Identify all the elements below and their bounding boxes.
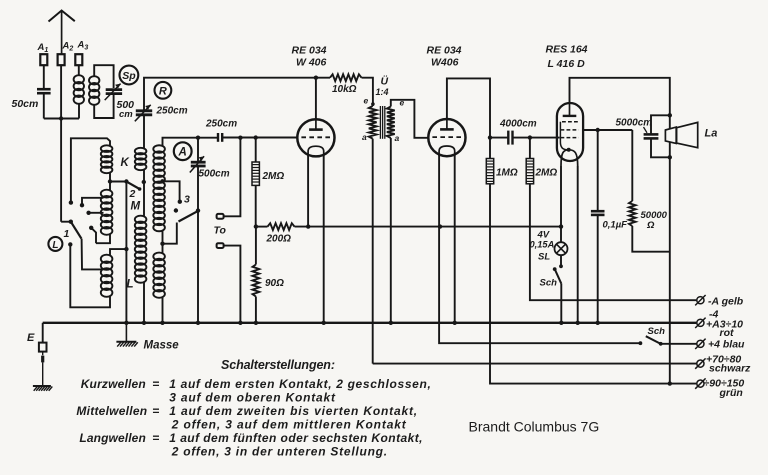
- wire 2Mohm to gelb line: [530, 184, 697, 300]
- wire A cap top: [197, 138, 199, 161]
- wire coil3 top: [163, 138, 199, 146]
- wire V3 filament right to bus: [577, 166, 579, 323]
- svg-text:=: =: [152, 377, 159, 391]
- variable capacitor Sp 500cm: [106, 88, 122, 91]
- wire coil2 bottom: [143, 282, 145, 323]
- svg-text:2MΩ: 2MΩ: [262, 171, 285, 182]
- svg-text:4000cm: 4000cm: [499, 119, 537, 130]
- junction gruen: [668, 381, 672, 385]
- wire secondary bottom to bus: [390, 138, 392, 323]
- svg-text:RE 034: RE 034: [292, 45, 327, 57]
- svg-text:E: E: [27, 332, 35, 344]
- V3 grid rail: [560, 122, 567, 150]
- terminal A2: [58, 54, 65, 65]
- junction bus x198: [196, 321, 200, 325]
- svg-text:rot: rot: [720, 327, 735, 339]
- wire filament line left: [256, 226, 268, 228]
- wire to 4000cm: [490, 137, 507, 139]
- wire 0.1uF to bus: [597, 215, 599, 322]
- junction coil3 tap upper: [160, 179, 164, 183]
- junction To grid line: [238, 136, 242, 140]
- svg-text:2: 2: [129, 188, 136, 200]
- wire R to coil K2: [143, 115, 145, 148]
- wire V2 filament right: [454, 155, 456, 322]
- junction bus x391: [389, 321, 393, 325]
- coil lower grid section: [153, 253, 165, 261]
- wire coil1 top: [71, 138, 110, 201]
- wire 90ohm to bus: [255, 297, 257, 323]
- switch 1 pivot: [69, 220, 73, 224]
- svg-text:250cm: 250cm: [205, 119, 237, 130]
- svg-text:A1: A1: [37, 42, 49, 54]
- resistor 2Mohm grid: [526, 159, 533, 184]
- wire coil L bottom lead: [70, 246, 110, 307]
- switch 2 blade: [126, 182, 139, 190]
- resistor 90ohm: [253, 265, 260, 297]
- junction coil1 tap: [108, 179, 112, 183]
- junction grid node: [196, 136, 200, 140]
- svg-text:2 offen, 3 in der unteren: 2 offen, 3 in der unteren Stellung.: [171, 445, 387, 459]
- wire 250cm to tube1 grid: [223, 137, 298, 139]
- svg-text:2MΩ: 2MΩ: [535, 168, 558, 179]
- wire blau to terminal: [661, 343, 697, 345]
- resistor 200ohm: [268, 223, 295, 230]
- wire tank bottom: [94, 95, 113, 118]
- coil K left section: [101, 145, 113, 152]
- wire blade tip to L tap: [82, 239, 104, 270]
- svg-text:La: La: [705, 128, 718, 140]
- wire V3 screen out: [583, 129, 632, 131]
- wire coil1 M bottom: [96, 234, 110, 243]
- wire coil3 mid: [162, 231, 164, 254]
- wire V2 plate to 4000cm: [447, 78, 490, 137]
- tube V3 RES164 envelope: [557, 103, 583, 161]
- contact dot switch1 c5: [68, 242, 72, 246]
- resistor 1Mohm lead: [489, 138, 491, 159]
- terminal -A gelb: [697, 297, 704, 304]
- terminal To upper: [217, 214, 224, 219]
- junction lamp switch: [559, 264, 563, 268]
- resistor 2Mohm input: [252, 162, 259, 185]
- svg-text:3 auf dem oberen Kontakt: 3 auf dem oberen Kontakt: [169, 391, 336, 405]
- wire screen to 50000: [631, 130, 633, 201]
- wire coil3 to switch3 blade: [163, 223, 177, 244]
- wire schwarz line: [373, 363, 697, 365]
- wire To upper: [224, 138, 241, 217]
- capacitor 4000cm: [507, 131, 509, 145]
- svg-text:=: =: [152, 404, 159, 418]
- terminal 90-150 gruen: [697, 380, 704, 387]
- wire V1 filament right: [323, 156, 325, 323]
- junction bus x455: [453, 321, 457, 325]
- circled label R: [155, 82, 172, 99]
- wire A column to bus: [197, 167, 199, 323]
- antenna coupling coil secondary: [89, 76, 99, 84]
- resistor 1Mohm: [486, 159, 493, 184]
- switch 2 pivot: [124, 179, 128, 183]
- svg-text:0,15A: 0,15A: [530, 240, 555, 250]
- wire V2 filament left: [439, 155, 640, 343]
- svg-text:1MΩ: 1MΩ: [496, 168, 518, 179]
- resistor 90ohm lead: [255, 227, 257, 265]
- V3 plate bar: [563, 115, 577, 117]
- junction bus x598: [596, 321, 600, 325]
- svg-text:e: e: [364, 96, 369, 106]
- svg-text:2 offen, 3 auf dem mittle: 2 offen, 3 auf dem mittleren Kontakt: [171, 418, 407, 432]
- svg-text:M: M: [131, 201, 141, 213]
- lamp SL 4V 0.15A: [555, 242, 568, 255]
- wire 1Mohm to gruen line: [490, 184, 696, 384]
- wire secondary top to V2 grid: [391, 100, 429, 138]
- svg-text:Sp: Sp: [122, 70, 136, 82]
- wire A2 down: [60, 65, 62, 222]
- V3 filament: [561, 150, 578, 166]
- wire switch2 to Masse bus: [125, 182, 127, 323]
- svg-text:RE 034: RE 034: [427, 45, 462, 57]
- switch 2 tip: [138, 187, 142, 191]
- junction 90ohm top: [254, 224, 258, 228]
- speaker bus: [669, 115, 671, 383]
- svg-text:250cm: 250cm: [156, 106, 188, 117]
- wire primary bottom down: [372, 139, 374, 364]
- junction bus x126: [124, 321, 128, 325]
- switch 1 blade: [71, 222, 82, 239]
- junction 4000cm left: [488, 135, 492, 139]
- svg-text:Sch: Sch: [540, 278, 558, 289]
- wire 2M to junction: [255, 185, 257, 226]
- svg-text:RES 164: RES 164: [546, 44, 588, 56]
- svg-text:500cm: 500cm: [199, 169, 230, 180]
- capacitor 0.1uF lead: [597, 130, 599, 211]
- svg-text:Ü: Ü: [381, 75, 389, 88]
- svg-text:R: R: [159, 86, 167, 98]
- contact c4 with wire: [89, 226, 93, 230]
- svg-text:3: 3: [184, 194, 190, 206]
- switch 3 pivot: [196, 208, 200, 212]
- junction transformer e: [371, 102, 375, 106]
- junction bus x240: [238, 321, 242, 325]
- junction lamp top: [559, 224, 563, 228]
- svg-text:L 416 D: L 416 D: [548, 58, 586, 70]
- contact switch3 b: [174, 208, 178, 212]
- junction speaker bottom: [668, 155, 672, 159]
- svg-text:Kurzwellen: Kurzwellen: [81, 377, 146, 391]
- svg-text:90Ω: 90Ω: [265, 278, 284, 289]
- junction tube1 filament: [306, 224, 310, 228]
- terminal -4 +A3 rot: [697, 319, 704, 326]
- circled label L: [48, 237, 62, 251]
- wire V1 filament left: [307, 156, 309, 227]
- junction coil2: [142, 180, 146, 184]
- wire coil2 mid: [143, 170, 145, 217]
- variable capacitor R 250cm: [136, 109, 152, 112]
- wire To lower: [224, 246, 241, 323]
- svg-text:1 auf dem zweiten bis vie: 1 auf dem zweiten bis vierten Kontakt,: [169, 404, 417, 418]
- wire antenna coil bottom: [78, 103, 80, 119]
- svg-text:schwarz: schwarz: [709, 363, 751, 375]
- svg-text:1: 1: [64, 228, 70, 240]
- svg-text:W 406: W 406: [296, 56, 327, 68]
- svg-text:To: To: [214, 225, 227, 237]
- wire coil3 bottom: [162, 297, 164, 323]
- svg-text:=: =: [152, 431, 159, 445]
- wire A1-row to coil: [44, 118, 79, 120]
- svg-text:+4 blau: +4 blau: [708, 339, 745, 351]
- wire V1 plate: [315, 78, 317, 120]
- junction bus x324: [322, 321, 326, 325]
- svg-text:Sch: Sch: [648, 326, 666, 337]
- wire A3 to coil: [78, 65, 80, 76]
- coil grid section: [153, 145, 165, 153]
- resistor 50000ohm: [629, 201, 636, 226]
- terminal E: [39, 343, 47, 352]
- junction speaker top: [668, 113, 672, 117]
- junction bus x162: [160, 321, 164, 325]
- junction L-coil top: [124, 247, 128, 251]
- capacitor 5000cm branch: [651, 115, 670, 134]
- wire 4000cm to V3: [513, 137, 559, 139]
- terminal To lower: [217, 243, 224, 248]
- transformer secondary winding: [387, 107, 395, 139]
- svg-text:0,1µF: 0,1µF: [603, 220, 628, 231]
- wire coil1 to switch2: [110, 181, 126, 183]
- contact c3 with wire: [86, 211, 90, 215]
- junction V1 plate: [314, 76, 318, 80]
- svg-text:a: a: [395, 133, 400, 143]
- junction bus x561: [559, 321, 563, 325]
- V3 grid dashes: [562, 121, 579, 123]
- svg-text:grün: grün: [719, 387, 743, 399]
- circled label A: [174, 142, 192, 160]
- svg-text:Schalterstellungen:: Schalterstellungen:: [221, 358, 335, 372]
- wire grid node to 250cm: [198, 137, 217, 139]
- svg-text:Masse: Masse: [144, 340, 180, 352]
- earth ground: [33, 385, 51, 387]
- resistor 10kohm: [330, 74, 362, 81]
- svg-text:cm: cm: [119, 109, 133, 120]
- coil M left section: [101, 190, 113, 198]
- switch Sch lamp blade: [555, 269, 562, 284]
- svg-text:A2: A2: [62, 41, 74, 53]
- coil M-L mid section: [135, 216, 147, 223]
- wire A1 to capacitor: [43, 65, 45, 88]
- circled label Sp: [119, 66, 138, 85]
- svg-text:Mittelwellen: Mittelwellen: [76, 404, 147, 418]
- svg-text:L: L: [127, 279, 134, 291]
- transformer primary winding: [369, 106, 377, 139]
- contact switch3 a: [178, 200, 182, 204]
- wire Sch to bus: [560, 284, 562, 323]
- variable capacitor A 500cm: [191, 161, 206, 164]
- wire E lead: [42, 352, 44, 356]
- junction A2-A1 row: [59, 116, 63, 120]
- svg-text:1:4: 1:4: [376, 87, 389, 97]
- speaker La: [665, 127, 676, 143]
- svg-text:K: K: [121, 157, 130, 169]
- wire A2 to pivot: [61, 221, 71, 223]
- Masse bus: [43, 322, 697, 324]
- junction 2Mohm grid top: [528, 135, 532, 139]
- svg-text:L: L: [52, 240, 58, 251]
- coil L left section: [101, 255, 113, 263]
- wire tank loop: [94, 65, 113, 88]
- switch 3 blade: [179, 211, 199, 222]
- junction 2M resistor top: [254, 135, 258, 139]
- junction 0.1uF top: [596, 128, 600, 132]
- antenna coupling coil primary: [74, 75, 84, 83]
- junction bus x144: [142, 321, 146, 325]
- svg-text:Brandt Columbus 7G: Brandt Columbus 7G: [469, 419, 600, 435]
- capacitor 50cm: [37, 88, 51, 91]
- svg-text:A: A: [178, 147, 187, 159]
- wire coil1 K-M: [109, 173, 111, 191]
- svg-text:a: a: [362, 132, 367, 142]
- svg-text:1 auf dem fünften oder se: 1 auf dem fünften oder sechsten Kontakt,: [169, 431, 422, 445]
- terminal +70-80 schwarz: [697, 360, 704, 367]
- switch Sch output blade: [646, 336, 661, 344]
- svg-text:Langwellen: Langwellen: [79, 431, 145, 445]
- svg-text:W406: W406: [431, 56, 459, 68]
- svg-text:5000cm: 5000cm: [616, 118, 653, 129]
- junction tube2 filament: [438, 224, 442, 228]
- svg-text:A3: A3: [77, 40, 89, 52]
- wire coil L top lead: [110, 249, 126, 255]
- junction bus x256: [254, 321, 258, 325]
- tube V1 RE034: [297, 119, 334, 156]
- transformer core: [379, 106, 381, 139]
- switch Sch lamp contact: [553, 267, 557, 271]
- terminal A1: [40, 54, 47, 65]
- terminal +4 blau: [697, 340, 704, 347]
- junction bus x578: [576, 321, 580, 325]
- wire lamp bottom: [560, 255, 562, 266]
- svg-text:-A gelb: -A gelb: [708, 296, 744, 308]
- svg-text:SL: SL: [538, 252, 550, 263]
- svg-text:1 auf dem ersten Kontakt,: 1 auf dem ersten Kontakt, 2 geschlossen,: [169, 377, 431, 391]
- junction coil3 lower: [160, 242, 164, 246]
- Masse ground: [125, 323, 127, 342]
- svg-text:Ω: Ω: [646, 220, 655, 231]
- wire 50000 to speaker bus: [632, 226, 670, 252]
- wire coil3 tap to contact: [163, 181, 180, 200]
- resistor 2Mohm grid lead: [529, 138, 531, 159]
- tube V2 RE034: [428, 119, 465, 156]
- wire V3 plate top: [570, 78, 670, 116]
- capacitor 250cm: [217, 133, 219, 142]
- svg-text:200Ω: 200Ω: [266, 234, 292, 245]
- antenna symbol: [49, 11, 75, 22]
- coil K mid section: [135, 148, 147, 155]
- terminal A3: [75, 54, 82, 65]
- resistor 2Mohm input lead: [255, 138, 257, 162]
- wire 50cm down: [43, 94, 45, 119]
- contact c1: [69, 200, 73, 204]
- switch Sch output contact: [639, 341, 643, 345]
- contact c2 with wire: [80, 203, 84, 207]
- wire bus to E: [42, 323, 44, 343]
- wire 10k to transformer: [362, 78, 373, 106]
- capacitor 0.1uF: [591, 210, 605, 213]
- svg-text:10kΩ: 10kΩ: [332, 84, 357, 95]
- wire filament line: [295, 226, 562, 228]
- wire V3 filament left to lamp: [560, 166, 562, 242]
- wire top bus segment 1: [144, 78, 330, 111]
- svg-text:50cm: 50cm: [12, 98, 39, 110]
